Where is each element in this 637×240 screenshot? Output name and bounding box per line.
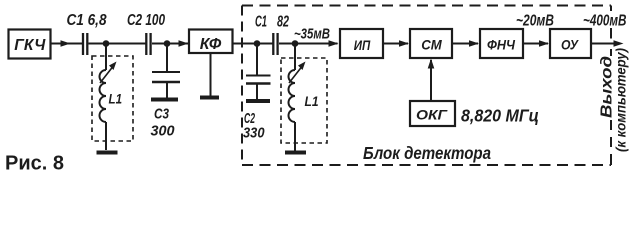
svg-text:СМ: СМ [421,37,442,53]
dashed border detector block: left edge [241,6,243,166]
caption Ris. 8 [5,153,64,175]
wire OKG to SM [430,60,432,101]
white patch under ~400mV label [605,12,617,28]
svg-text:ИП: ИП [354,37,371,53]
wire FNCh to OU [523,43,548,45]
label L1 (right) [305,93,319,109]
svg-text:L1: L1 [305,93,319,109]
wire C1(82) to IP [279,43,338,45]
wire junction down to L1 [105,44,107,71]
dashed box around right L1 [281,58,327,143]
block GKCh (sweep generator) [9,30,51,59]
label C2 330 [243,110,265,142]
capacitor C1 82 [273,33,277,55]
label 8,820 MHz [461,106,539,126]
arrow into SM bottom [428,59,435,69]
block SM (mixer) [410,29,452,58]
svg-text:8,820 МГц: 8,820 МГц [461,106,539,126]
wire SM to FNCh [452,43,478,45]
svg-text:С1 6,8: С1 6,8 [67,12,107,29]
dashed box around left L1 [92,56,133,141]
ground under C3 [151,98,178,102]
label C1 6,8 [67,12,107,29]
wire C2 to KF [152,43,188,45]
node junction after C1 [103,40,110,47]
wire KF to C1(82) [233,43,273,45]
block OU (op amp) [550,29,591,58]
svg-text:330: 330 [243,125,265,142]
wire GKCh output [51,43,83,45]
svg-text:~20мВ: ~20мВ [516,13,554,30]
label C1 82 [255,14,289,31]
dashed border detector block: right edge [610,6,612,166]
ground under left L1 [97,151,118,155]
svg-text:~400мВ: ~400мВ [583,13,627,30]
node junction for right L1 [292,40,299,47]
svg-text:С1: С1 [255,14,267,31]
arrow output [614,40,624,47]
inductor L1 (left, tunable) [100,62,117,151]
wire IP to SM [383,43,408,45]
svg-text:82: 82 [277,14,289,31]
svg-text:Блок детектора: Блок детектора [363,143,491,163]
label ~20 mV [516,13,554,30]
arrow into IP [329,40,339,47]
block FNCh (low-pass filter) [480,29,523,58]
label ~400 mV [583,13,627,30]
svg-text:КФ: КФ [200,36,222,53]
arrow into KF [179,40,189,47]
capacitor C3 to ground [152,44,180,99]
ground under C2 330 [246,99,270,103]
block IP [340,29,383,58]
arrow into OU [539,40,549,47]
capacitor C1 6,8 [83,33,87,55]
dashed border detector block: bottom edge [242,164,611,166]
block OKG (crystal oscillator) [410,101,455,126]
block KF (quartz filter) [189,30,233,54]
svg-text:ГКЧ: ГКЧ [14,37,46,54]
svg-text:L1: L1 [109,91,123,107]
arrow into FNCh [469,40,479,47]
svg-text:ФНЧ: ФНЧ [487,37,516,53]
capacitor C2 330 to ground [246,44,271,100]
node junction for C2 330 [254,40,261,47]
node junction after C2 [164,40,171,47]
arrow into SM [399,40,409,47]
label Blok detektora [363,143,491,163]
capacitor C2 100 [146,33,150,55]
wire junction down to right L1 [294,44,296,71]
svg-text:300: 300 [151,123,176,140]
inductor L1 (right, tunable) [289,62,306,152]
svg-text:(к компьютеру): (к компьютеру) [614,48,629,152]
label Vyhod (rotated) [599,56,616,118]
svg-text:~35мВ: ~35мВ [294,27,330,43]
svg-text:С2 100: С2 100 [127,12,165,29]
label C2 100 [127,12,165,29]
wire C1 to C2 [89,43,146,45]
label L1 (left) [109,91,123,107]
arrow on wire to C1 [61,40,71,47]
svg-text:ОКГ: ОКГ [416,107,449,123]
output wire from OU [591,43,619,45]
ground under KF [200,96,219,100]
svg-text:С3: С3 [154,106,170,123]
wire KF down to ground [210,53,212,96]
label k kompyuteru (rotated) [614,48,629,152]
svg-text:Рис. 8: Рис. 8 [5,153,64,175]
ground under right L1 [285,151,306,155]
dashed border detector block: top edge [242,5,611,7]
svg-text:ОУ: ОУ [561,37,579,53]
label C3 300 [151,106,176,140]
label ~35 mV [294,27,330,43]
